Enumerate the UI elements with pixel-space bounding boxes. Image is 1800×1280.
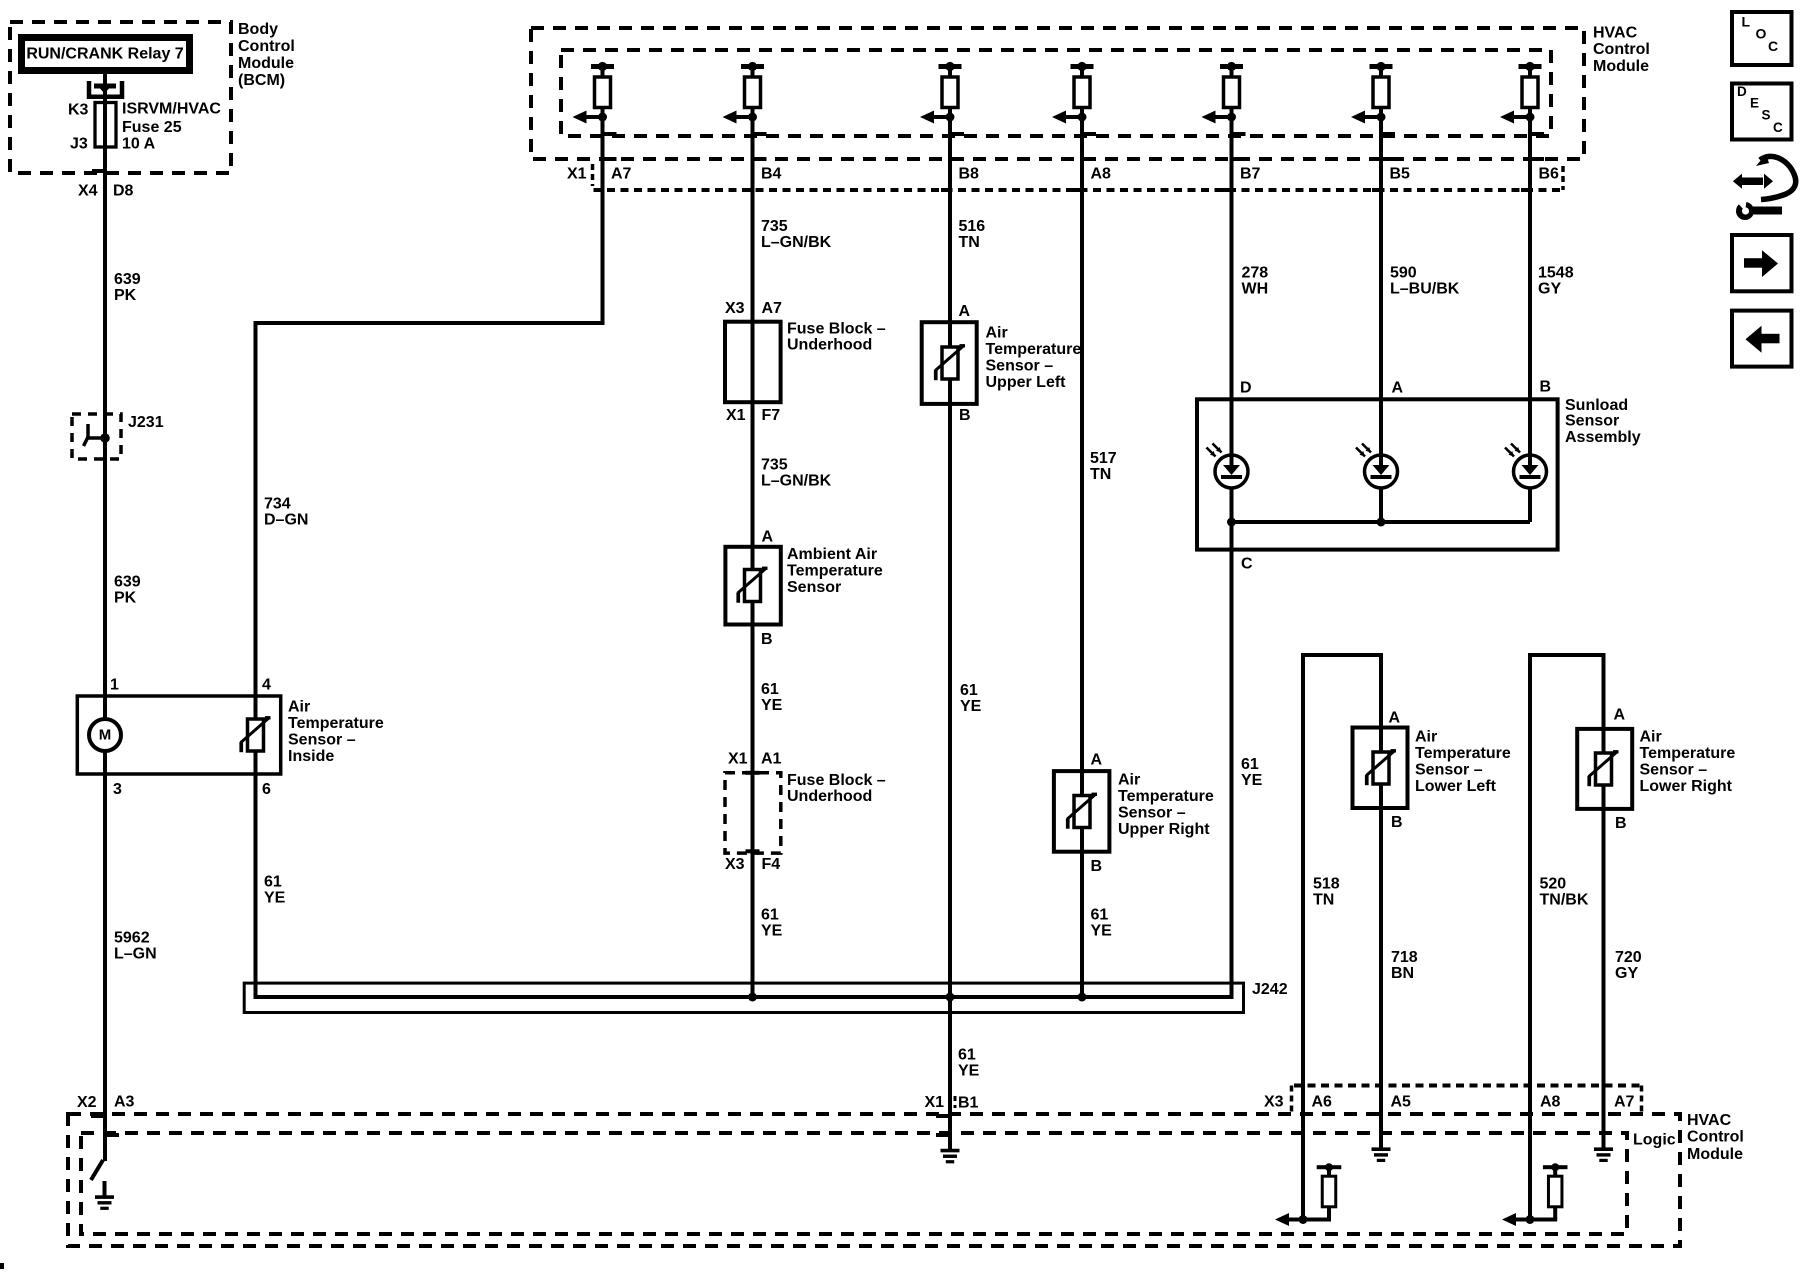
svg-text:61: 61	[958, 1047, 976, 1064]
svg-text:Control: Control	[1593, 41, 1650, 58]
svg-text:A3: A3	[114, 1094, 135, 1111]
relay RUN/CRANK Relay 7	[22, 38, 190, 71]
thermistor inside sensor	[239, 716, 270, 752]
arrow and pull-up resistor at A8	[1515, 1218, 1530, 1222]
svg-text:TN/BK: TN/BK	[1540, 892, 1589, 909]
svg-text:Temperature: Temperature	[1118, 788, 1214, 805]
svg-text:A: A	[1392, 380, 1404, 397]
photodiode D	[1207, 444, 1249, 489]
svg-text:YE: YE	[1091, 923, 1113, 940]
svg-text:X1: X1	[925, 1094, 945, 1111]
ground at A5	[1372, 1147, 1391, 1162]
svg-text:1: 1	[110, 677, 119, 694]
svg-text:E: E	[1750, 96, 1759, 111]
forward arrow icon box	[1732, 235, 1792, 291]
svg-text:61: 61	[264, 874, 282, 891]
svg-text:X2: X2	[77, 1094, 97, 1111]
svg-text:Temperature: Temperature	[288, 715, 384, 732]
svg-text:HVAC: HVAC	[1593, 25, 1638, 42]
svg-text:5962: 5962	[114, 930, 150, 947]
svg-text:K3: K3	[68, 102, 89, 119]
svg-text:Fuse 25: Fuse 25	[122, 119, 182, 136]
ticks at module crossings for B7	[1232, 132, 1246, 136]
svg-text:Air: Air	[1640, 729, 1662, 746]
splice J231 dashed box	[72, 414, 121, 459]
DESC icon box	[1732, 84, 1792, 140]
wire B7 278 WH down to sunload sensor, pin D, then 61 YE down to J242	[1230, 117, 1234, 997]
Air Temperature Sensor - Upper Left box	[922, 322, 977, 404]
svg-text:L–GN: L–GN	[114, 946, 157, 963]
svg-text:F7: F7	[762, 407, 781, 424]
svg-text:Control: Control	[1687, 1129, 1744, 1146]
wire lower-left sensor loop top	[1301, 653, 1383, 657]
arrow and pull-up resistor at A6	[1288, 1218, 1303, 1222]
ticks at module crossings for B6	[1530, 132, 1544, 136]
svg-text:A8: A8	[1540, 1094, 1561, 1111]
wire B5 590 L-BU/BK down to sunload pin A	[1379, 117, 1383, 522]
wire A7 from HVAC module down to corner	[601, 117, 605, 323]
svg-text:J242: J242	[1252, 981, 1288, 998]
svg-text:RUN/CRANK Relay 7: RUN/CRANK Relay 7	[26, 46, 183, 63]
thermistor ambient	[736, 567, 767, 603]
resistor and arrow for pin A8 in HVAC module	[1071, 64, 1094, 69]
svg-text:3: 3	[113, 781, 122, 798]
Sunload Sensor Assembly box	[1197, 399, 1558, 549]
ground below A3 switch	[103, 1181, 107, 1196]
svg-text:61: 61	[1091, 907, 1109, 924]
svg-text:J3: J3	[70, 136, 88, 153]
wire 520 TN/BK lower-right sensor loop left side to pin A8	[1528, 655, 1532, 1220]
wire 734 D-GN / 61 YE vertical from corner to J242	[254, 323, 258, 997]
svg-text:A1: A1	[761, 751, 782, 768]
svg-text:X4: X4	[78, 183, 98, 200]
resistor and arrow for pin B5 in HVAC module	[1370, 64, 1393, 69]
wire 518 TN lower-left sensor loop left side to pin A6	[1301, 655, 1305, 1220]
svg-text:B: B	[1615, 815, 1627, 832]
svg-text:YE: YE	[1241, 772, 1263, 789]
relay output connector bracket	[89, 81, 122, 97]
svg-text:A5: A5	[1391, 1094, 1412, 1111]
svg-text:Module: Module	[1593, 58, 1649, 75]
svg-text:A: A	[959, 303, 971, 320]
svg-text:734: 734	[264, 496, 291, 513]
svg-text:D: D	[1240, 380, 1252, 397]
svg-text:Ambient Air: Ambient Air	[787, 546, 877, 563]
HVAC Control Module inner dashed box	[561, 50, 1551, 136]
svg-text:B: B	[761, 631, 773, 648]
svg-text:A8: A8	[1091, 166, 1112, 183]
svg-text:Air: Air	[288, 699, 310, 716]
svg-text:B5: B5	[1390, 166, 1411, 183]
svg-text:Logic: Logic	[1633, 1132, 1676, 1149]
svg-text:YE: YE	[960, 698, 982, 715]
svg-text:720: 720	[1615, 949, 1642, 966]
fuse ISRVM/HVAC Fuse 25 10 A	[95, 103, 116, 148]
svg-text:B7: B7	[1240, 166, 1261, 183]
svg-text:YE: YE	[264, 890, 286, 907]
svg-text:590: 590	[1390, 265, 1417, 282]
svg-text:4: 4	[262, 677, 271, 694]
svg-text:YE: YE	[761, 697, 783, 714]
Air Temperature Sensor - Inside box	[77, 696, 280, 774]
svg-text:Air: Air	[1415, 729, 1437, 746]
svg-text:TN: TN	[1313, 892, 1334, 909]
Air Temperature Sensor - Lower Right box	[1577, 729, 1632, 809]
svg-text:61: 61	[960, 682, 978, 699]
Ambient Air Temperature Sensor box	[725, 547, 780, 625]
splice pack J242 enclosure	[244, 983, 1243, 1012]
svg-text:B: B	[1091, 858, 1103, 875]
svg-text:Body: Body	[238, 21, 278, 38]
svg-text:517: 517	[1090, 450, 1117, 467]
motor M	[89, 719, 121, 751]
svg-text:HVAC: HVAC	[1687, 1112, 1732, 1129]
tools icon curved arrow	[1760, 156, 1796, 199]
resistor and arrow for pin A7 in HVAC module	[591, 64, 614, 69]
svg-text:61: 61	[1241, 756, 1259, 773]
svg-text:C: C	[1773, 120, 1783, 135]
svg-text:61: 61	[761, 907, 779, 924]
svg-text:Sensor –: Sensor –	[986, 358, 1054, 375]
svg-text:C: C	[1768, 38, 1778, 54]
resistor and arrow for pin B8 in HVAC module	[939, 64, 962, 69]
svg-text:L–GN/BK: L–GN/BK	[761, 234, 832, 251]
svg-text:Sensor: Sensor	[787, 579, 841, 596]
ticks at module crossings for A8	[1082, 132, 1096, 136]
svg-text:Sunload: Sunload	[1565, 397, 1628, 414]
svg-text:Module: Module	[1687, 1146, 1743, 1163]
svg-text:ISRVM/HVAC: ISRVM/HVAC	[122, 101, 221, 118]
svg-text:Temperature: Temperature	[787, 563, 883, 580]
bottom HVAC Control Module inner Logic dashed box	[81, 1133, 1627, 1234]
wire 734 D-GN horizontal from A7 wire to sensor-inside wire	[254, 321, 605, 325]
svg-text:B: B	[1540, 379, 1552, 396]
svg-text:WH: WH	[1242, 281, 1269, 298]
thermistor upper right	[1066, 793, 1097, 829]
svg-text:X3: X3	[725, 300, 745, 317]
svg-text:639: 639	[114, 574, 141, 591]
svg-text:Lower Left: Lower Left	[1415, 778, 1497, 795]
Fuse Block - Underhood dashed box	[725, 773, 781, 853]
svg-text:BN: BN	[1391, 965, 1414, 982]
svg-text:F4: F4	[762, 856, 781, 873]
junction dots on J242	[748, 993, 757, 1002]
ticks at module crossings for B5	[1381, 132, 1395, 136]
thermistor lower left	[1365, 749, 1396, 785]
svg-text:10 A: 10 A	[122, 136, 156, 153]
svg-text:A: A	[1389, 710, 1401, 727]
svg-text:X1: X1	[567, 166, 587, 183]
svg-text:Fuse Block –: Fuse Block –	[787, 321, 886, 338]
svg-text:A: A	[762, 529, 774, 546]
connector X3 row bottom	[1294, 1084, 1641, 1088]
svg-text:B: B	[1391, 814, 1403, 831]
connector X1 row of HVAC module	[591, 164, 595, 186]
svg-text:61: 61	[761, 681, 779, 698]
sunload inner bus	[1232, 520, 1531, 524]
svg-text:A: A	[1614, 707, 1626, 724]
svg-text:Upper Left: Upper Left	[986, 374, 1067, 391]
wire A8 517 TN / 61 YE down to J242	[1080, 117, 1084, 997]
photodiode B	[1505, 444, 1547, 489]
svg-text:M: M	[99, 726, 112, 743]
svg-text:S: S	[1762, 108, 1771, 123]
svg-text:278: 278	[1242, 265, 1269, 282]
Body Control Module (BCM) dashed box	[10, 22, 231, 173]
svg-text:B: B	[959, 407, 971, 424]
svg-text:Lower Right: Lower Right	[1640, 778, 1733, 795]
wire 718 BN lower-left sensor loop right side to pin A5 ground	[1379, 655, 1383, 1148]
ticks at module crossings for B4	[753, 132, 767, 136]
back arrow icon box	[1732, 311, 1792, 367]
wire 639 PK / 5962 L-GN from BCM fuse down to HVAC module pin A3	[103, 74, 107, 1161]
svg-text:B4: B4	[761, 166, 782, 183]
svg-text:D–GN: D–GN	[264, 512, 308, 529]
svg-text:PK: PK	[114, 590, 137, 607]
wire B6 1548 GY down to sunload pin B	[1528, 117, 1532, 522]
page corner mark	[0, 1263, 4, 1269]
svg-text:520: 520	[1540, 876, 1567, 893]
thermistor lower right	[1587, 750, 1618, 786]
svg-text:L–BU/BK: L–BU/BK	[1390, 281, 1460, 298]
svg-text:639: 639	[114, 271, 141, 288]
svg-text:Air: Air	[1118, 772, 1140, 789]
svg-text:A6: A6	[1312, 1094, 1333, 1111]
wire 720 GY lower-right sensor loop right side to pin A7 ground	[1602, 655, 1606, 1148]
thermistor upper left	[934, 344, 965, 380]
svg-text:C: C	[1241, 556, 1253, 573]
ground at B1	[941, 1149, 960, 1164]
svg-text:D8: D8	[113, 183, 134, 200]
switch to ground inside module at A3	[91, 1160, 103, 1180]
svg-text:Sensor –: Sensor –	[1415, 762, 1483, 779]
ticks at module crossings for B8	[950, 132, 964, 136]
Fuse Block - Underhood box	[725, 322, 781, 403]
svg-text:6: 6	[262, 781, 271, 798]
photodiode A	[1356, 444, 1398, 489]
svg-text:Sensor –: Sensor –	[1118, 805, 1186, 822]
svg-text:J231: J231	[128, 414, 164, 431]
svg-text:X3: X3	[725, 856, 745, 873]
svg-text:YE: YE	[761, 923, 783, 940]
svg-text:L–GN/BK: L–GN/BK	[761, 473, 832, 490]
svg-text:O: O	[1756, 26, 1767, 42]
svg-text:Underhood: Underhood	[787, 337, 872, 354]
svg-text:(BCM): (BCM)	[238, 72, 285, 89]
wire B4 735 L-GN/BK / 61 YE down to J242	[751, 117, 755, 997]
svg-text:516: 516	[959, 218, 986, 235]
svg-text:735: 735	[761, 218, 788, 235]
svg-text:GY: GY	[1538, 281, 1561, 298]
svg-text:PK: PK	[114, 287, 137, 304]
tools icon double arrow	[1740, 178, 1763, 186]
svg-text:B6: B6	[1539, 166, 1560, 183]
pin X4 D8 of BCM	[92, 169, 103, 173]
svg-text:TN: TN	[1090, 466, 1111, 483]
wire lower-right sensor loop top	[1528, 653, 1606, 657]
bottom HVAC Control Module outer dashed box	[68, 1114, 1680, 1246]
svg-text:A: A	[1091, 752, 1103, 769]
svg-text:Temperature: Temperature	[986, 341, 1082, 358]
svg-text:D: D	[1737, 84, 1747, 99]
resistor and arrow for pin B7 in HVAC module	[1220, 64, 1243, 69]
svg-text:TN: TN	[959, 234, 980, 251]
svg-text:Temperature: Temperature	[1415, 745, 1511, 762]
svg-text:L: L	[1742, 14, 1751, 30]
svg-text:1548: 1548	[1538, 265, 1574, 282]
svg-text:735: 735	[761, 457, 788, 474]
svg-text:Sensor –: Sensor –	[288, 732, 356, 749]
svg-text:Inside: Inside	[288, 748, 334, 765]
svg-text:518: 518	[1313, 876, 1340, 893]
svg-text:A7: A7	[1614, 1094, 1635, 1111]
svg-text:Control: Control	[238, 38, 295, 55]
tools icon wrench	[1750, 207, 1782, 215]
HVAC Control Module outer dashed box	[531, 28, 1584, 159]
svg-text:GY: GY	[1615, 965, 1638, 982]
svg-text:Assembly: Assembly	[1565, 429, 1641, 446]
svg-text:B1: B1	[958, 1095, 979, 1112]
svg-text:Air: Air	[986, 325, 1008, 342]
svg-text:A7: A7	[762, 300, 783, 317]
svg-text:Sensor –: Sensor –	[1640, 762, 1708, 779]
resistor and arrow for pin B4 in HVAC module	[741, 64, 764, 69]
splice pack J242 bus line	[254, 995, 1234, 999]
svg-text:Underhood: Underhood	[787, 788, 872, 805]
Air Temperature Sensor - Lower Left box	[1353, 728, 1408, 809]
svg-text:YE: YE	[958, 1063, 980, 1080]
ticks at module crossings for A7	[603, 132, 617, 136]
svg-text:B8: B8	[959, 166, 980, 183]
svg-text:X3: X3	[1264, 1094, 1284, 1111]
resistor and arrow for pin B6 in HVAC module	[1519, 64, 1542, 69]
Air Temperature Sensor - Upper Right box	[1054, 771, 1110, 852]
svg-text:718: 718	[1391, 949, 1418, 966]
ground at A7 bottom	[1594, 1147, 1613, 1162]
svg-text:Temperature: Temperature	[1640, 745, 1736, 762]
svg-text:Upper Right: Upper Right	[1118, 821, 1210, 838]
svg-text:Module: Module	[238, 55, 294, 72]
svg-text:A7: A7	[611, 166, 632, 183]
svg-text:Sensor: Sensor	[1565, 413, 1619, 430]
svg-text:X1: X1	[726, 407, 746, 424]
LOC icon box	[1732, 12, 1792, 65]
svg-text:Fuse Block –: Fuse Block –	[787, 772, 886, 789]
wire B8 516 TN / 61 YE down through J242 to ground B1	[948, 117, 952, 1149]
svg-text:X1: X1	[728, 751, 748, 768]
